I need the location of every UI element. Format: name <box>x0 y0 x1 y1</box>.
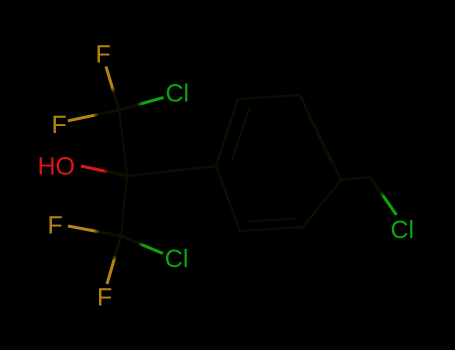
svg-text:Cl: Cl <box>391 216 415 244</box>
bond C1-Cl1 <box>119 98 164 111</box>
svg-text:F: F <box>97 284 112 312</box>
benzene ring (carbon skeleton, dark) <box>216 95 341 231</box>
wire: bond C1-C2 (dark) <box>119 110 127 176</box>
svg-text:F: F <box>96 41 111 69</box>
bond C3-F4 <box>107 236 121 284</box>
bond C3-Cl2 <box>121 236 163 254</box>
svg-text:F: F <box>52 111 67 139</box>
svg-text:F: F <box>48 212 63 240</box>
svg-text:HO: HO <box>38 153 76 181</box>
bond CH2-Cl3 <box>370 177 397 215</box>
wire: bond C2-C3 (dark) <box>121 176 127 236</box>
bond C1-F1 <box>106 67 119 111</box>
wire: bond ring R to CH2 (dark) <box>341 177 370 180</box>
bond C1-F2 <box>68 110 119 121</box>
aromatic inner line 1 <box>232 107 250 161</box>
aromatic inner line 3 <box>247 218 297 221</box>
aromatic inner line 2 <box>304 105 332 165</box>
wire: bond C2 to ring (dark) <box>127 166 216 176</box>
svg-text:Cl: Cl <box>165 245 189 273</box>
bond C2-O <box>81 166 127 176</box>
svg-text:Cl: Cl <box>166 80 190 108</box>
bond C3-F3 <box>68 226 121 236</box>
